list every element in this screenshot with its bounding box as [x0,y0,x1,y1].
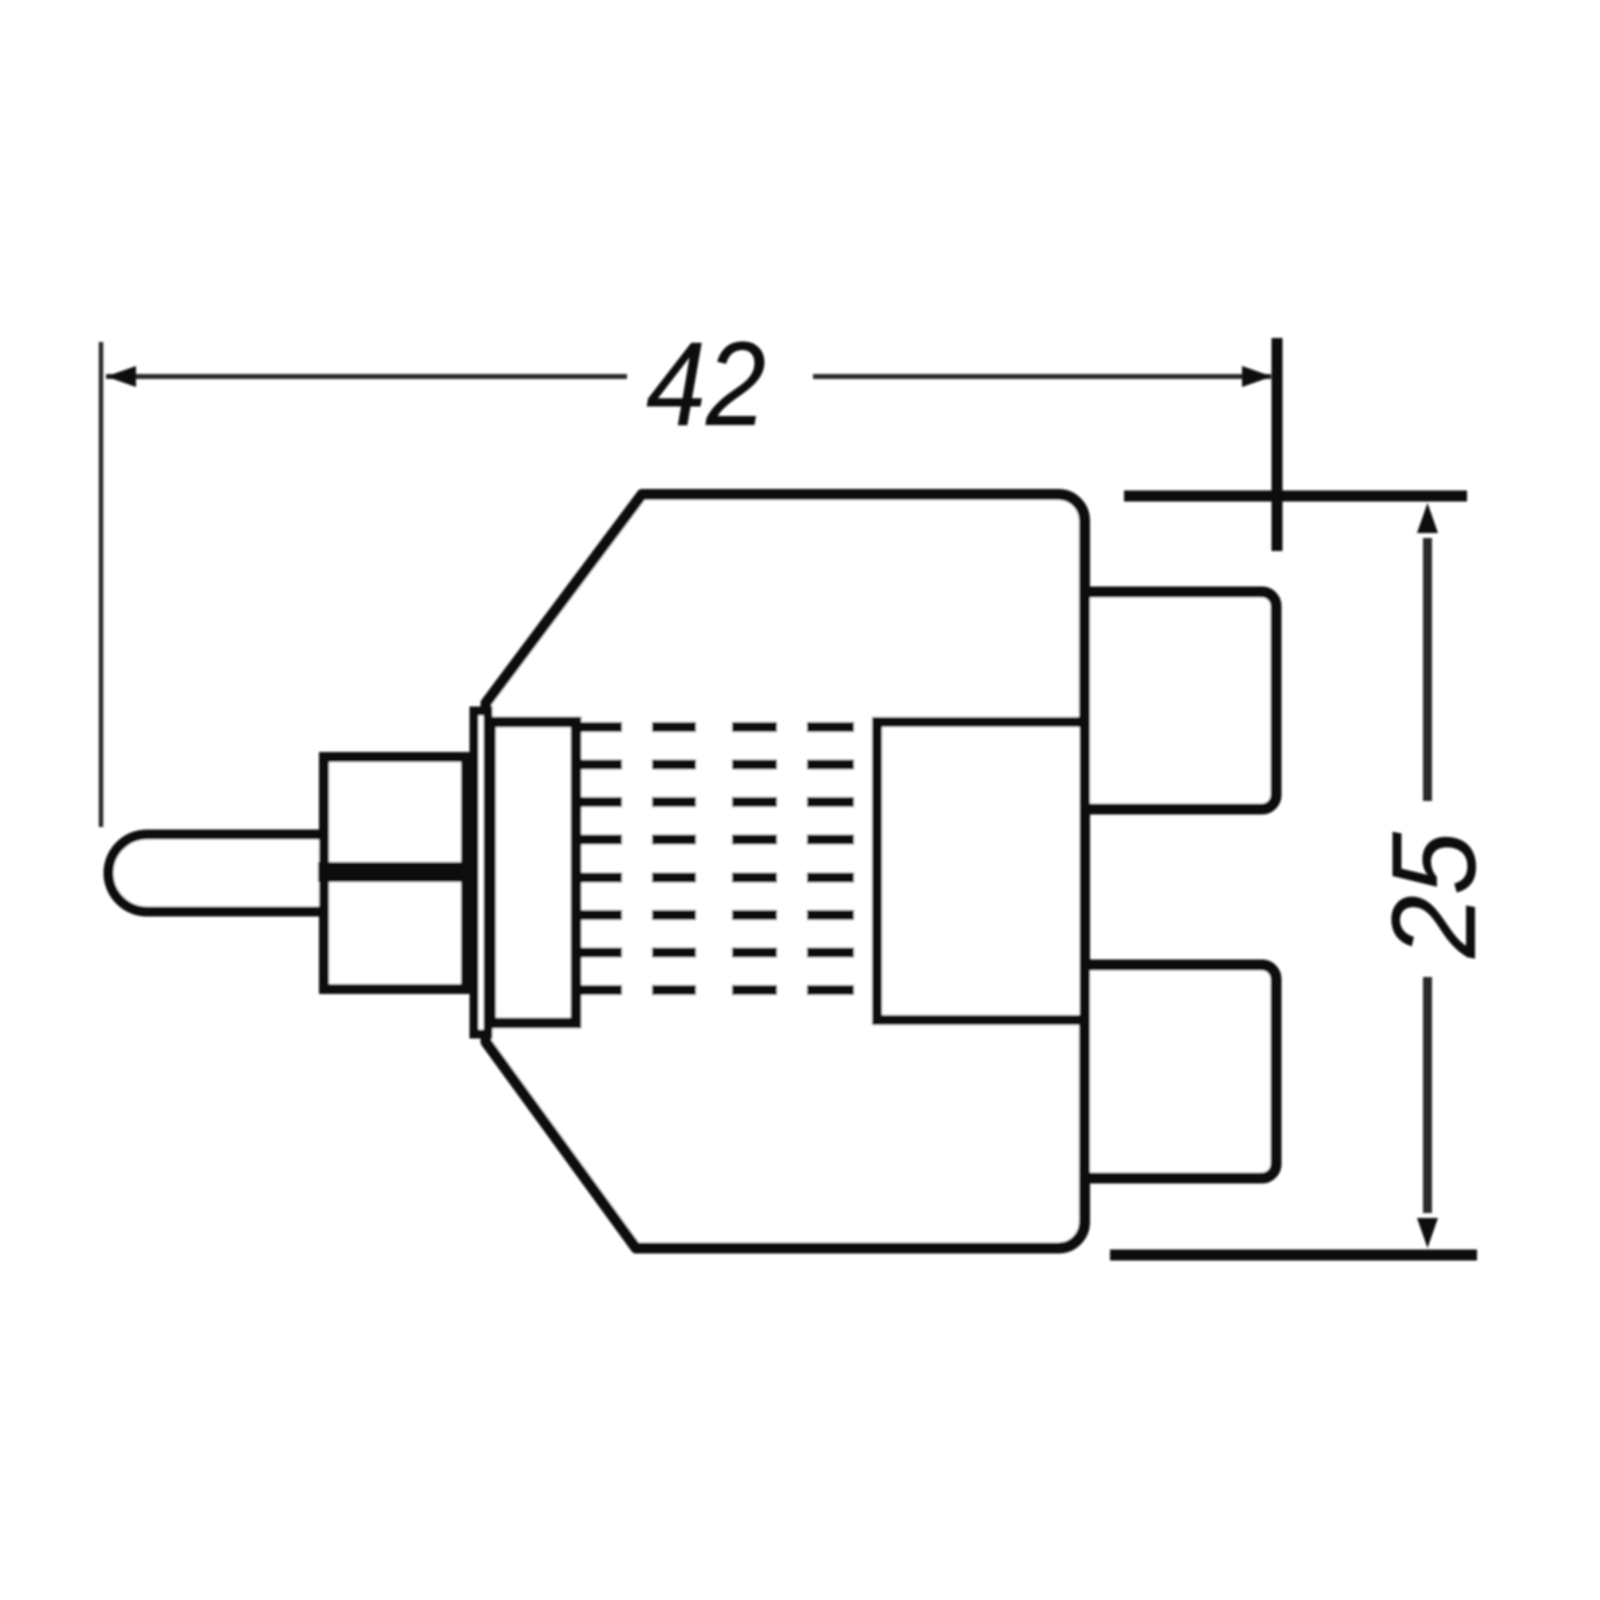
plate (front block) [491,722,577,1023]
dimension line 25 lower segment [1423,977,1432,1213]
jack bottom (female RCA) [1085,965,1277,1178]
flange (mounting washer) [474,711,488,1034]
hidden lines (dashed rows row1..row8) [581,727,854,990]
hidden line row 2 [581,760,854,770]
dimension line 42 left segment [106,374,627,379]
extension line top (for 25) [1124,491,1467,502]
hidden line row 1 [581,722,854,732]
extension line left (for 42) [99,342,104,827]
arrowhead up (25) [1417,503,1438,533]
dimension line 25 upper segment [1423,538,1432,801]
hidden line row 4 [581,835,854,845]
extension line right (for 42) [1272,338,1283,551]
barrel (plug body) [324,757,466,989]
svg-text:25: 25 [1367,831,1501,959]
hidden line row 5 [581,873,854,883]
body outline (hexagonal housing) [486,495,1085,1249]
hidden line row 3 [581,797,854,807]
arrowhead down (25) [1417,1218,1438,1248]
dimension line 42 right segment [813,374,1271,379]
svg-text:42: 42 [646,317,766,451]
arrowhead left (42) [106,366,136,387]
pin (male RCA center pin) [109,835,322,912]
extension line bottom (for 25) [1110,1250,1477,1261]
hidden line row 8 [581,985,854,995]
arrowhead right (42) [1242,366,1272,387]
barrel middle band [318,862,469,882]
hidden line row 6 [581,910,854,920]
jack top (female RCA) [1085,592,1277,809]
hidden line row 7 [581,948,854,958]
inner rectangle (internal block at right of body) [877,722,1085,1020]
